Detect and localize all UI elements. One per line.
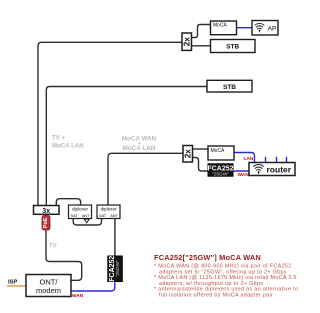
svg-text:STB: STB [223,84,236,91]
svg-text:WAN: WAN [238,172,250,178]
wire: middle 2x splitter to MoCA adapter U4 [192,148,208,150]
svg-text:"25GW": "25GW" [212,172,229,178]
splitter 2x (middle) [183,146,193,163]
FCA252 adapter U5 (middle, black) [207,164,233,178]
svg-text:MoCA LAN: MoCA LAN [52,143,84,150]
splitter 3x [34,206,60,215]
wire: 3x input 1 up-left column to top 2x splitter [38,42,182,206]
wireless access point AP [252,21,278,36]
svg-text:MoCA: MoCA [213,23,228,29]
svg-text:ANT: ANT [110,213,118,218]
splitter 2x (top) [182,33,192,50]
note bullet 3 [154,287,298,299]
label: MoCA WAN + MoCA LAN (gray) [122,136,157,152]
svg-text:ANT: ANT [82,213,90,218]
svg-text:MoCA LAN: MoCA LAN [123,145,156,152]
terminator on diplexer D1 ANT port [84,219,89,223]
svg-text:ONT/: ONT/ [40,277,59,286]
FCA252 adapter U6 (bottom, black, rotated) [108,256,123,282]
wire: diplexer SAT to SAT jumper [73,219,101,226]
wire: 3x input 3 bridge to left diplexer [56,199,80,206]
wire: right diplexer ANT down to FCA252 adapter U6 [114,219,116,257]
set-top box STB1 [211,40,256,53]
wire: top 2x splitter to MoCA adapter U3 [191,25,211,38]
diplexer D1 (left) [69,205,92,219]
svg-text:diplexer: diplexer [100,207,117,212]
svg-text:LAN: LAN [244,156,254,162]
router antennas (blue) [266,157,287,163]
note bullet 1 [154,264,292,276]
set-top box STB2 [207,80,252,92]
svg-text:2x: 2x [182,37,191,46]
wire: 3x input 2 column to STB2 [46,87,208,207]
router [249,163,295,176]
wire: middle 2x splitter to FCA252 adapter U5 [192,158,208,172]
MoCA adapter U4 (middle) [208,146,234,160]
wire: orange ISP drop to ONT/modem [7,285,26,287]
svg-text:MoCA: MoCA [211,148,226,154]
svg-text:SAT: SAT [71,213,79,218]
svg-text:3x: 3x [42,208,50,215]
svg-text:FCA252: FCA252 [109,256,116,282]
svg-text:TV +: TV + [52,135,65,142]
wire: blue ethernet LAN MoCA U4 to router [234,153,255,164]
diplexer D2 (right) [97,205,120,219]
wire: top 2x splitter to STB1 [191,45,211,47]
svg-text:full isolation offered by MoCA: full isolation offered by MoCA adapter p… [159,293,273,299]
ONT/modem [26,275,71,297]
svg-text:2x: 2x [183,149,192,158]
note bullet 2 [154,275,297,287]
wire: blue ethernet MoCA U3 to AP [237,27,252,29]
svg-text:STB: STB [226,44,239,51]
svg-text:AP: AP [268,25,278,32]
wire: blue ethernet WAN FCA252 U5 to router [233,170,250,172]
svg-text:ISP: ISP [8,279,17,285]
svg-text:FCA252: FCA252 [207,165,233,172]
svg-text:SAT: SAT [99,213,107,218]
svg-text:WAN: WAN [72,293,84,299]
label: TV + MoCA LAN (gray) [52,135,84,150]
wire: blue ethernet FCA252 U6 to ONT/modem WAN [71,281,115,291]
svg-text:PoE: PoE [43,217,49,228]
svg-text:diplexer: diplexer [72,207,89,212]
svg-text:FCA252["25GW"] MoCA WAN: FCA252["25GW"] MoCA WAN [154,253,261,262]
PoE filter (red) [42,216,50,231]
svg-text:TV: TV [49,244,57,250]
svg-text:modem: modem [36,286,61,295]
MoCA adapter U3 (top) [211,21,237,35]
wire: right diplexer top to middle 2x splitter [108,153,184,206]
wire: PoE filter down to ONT/modem coax [46,230,82,280]
svg-text:router: router [267,165,292,175]
svg-text:"25GW": "25GW" [115,260,121,277]
